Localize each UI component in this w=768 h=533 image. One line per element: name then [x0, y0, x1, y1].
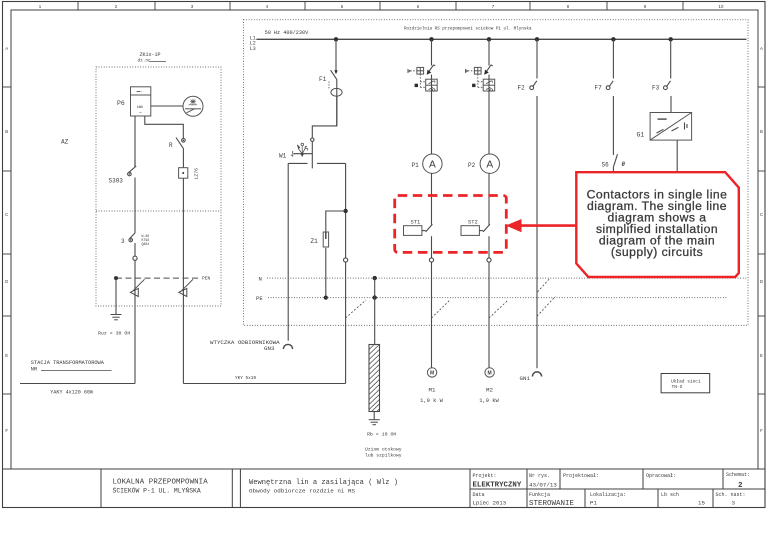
wire ST1 down — [431, 236, 433, 258]
ZK cable box dotted outline — [96, 67, 221, 306]
PEN tap arrow 2 — [179, 279, 193, 296]
svg-text:M: M — [430, 371, 434, 377]
svg-text:dz.nr: dz.nr — [138, 59, 152, 64]
motor M2 — [485, 368, 494, 377]
svg-text:Rozdzielnia RS przepompowni sc: Rozdzielnia RS przepompowni sciekow P1 u… — [404, 27, 532, 32]
svg-text:P1: P1 — [412, 162, 420, 169]
svg-text:Lb sch: Lb sch — [661, 492, 679, 498]
svg-text:F1: F1 — [319, 76, 327, 83]
RS cabinet dotted outline — [244, 20, 749, 326]
svg-text:YAKY 4x120 60m: YAKY 4x120 60m — [50, 389, 93, 395]
motor starter Q2 — [465, 39, 494, 154]
wire P6 to meter dial — [151, 105, 183, 107]
svg-text:C: C — [5, 212, 8, 217]
svg-text:Funkcja: Funkcja — [529, 492, 550, 498]
wire bus to F2 — [536, 39, 538, 78]
svg-text:STEROWANIE: STEROWANIE — [529, 500, 575, 508]
wire Z1 to PE — [325, 248, 327, 298]
svg-text:A: A — [429, 159, 436, 170]
red dashed highlight box around contactors — [395, 196, 507, 253]
wire cable YKY to RS — [183, 383, 345, 385]
svg-text:GN1: GN1 — [520, 375, 531, 382]
energy meter P6 box — [131, 87, 151, 116]
svg-text:Schemat:: Schemat: — [726, 472, 750, 478]
svg-text:YKY 5x10: YKY 5x10 — [235, 376, 256, 381]
svg-text:F7: F7 — [595, 84, 603, 91]
ammeter P2 — [480, 154, 499, 173]
svg-text:L3: L3 — [250, 46, 256, 52]
callout bubble — [576, 172, 739, 277]
busbar L1 L2 L3 — [256, 38, 746, 40]
N distribution dotted line — [267, 277, 748, 279]
switch S303 — [134, 160, 136, 167]
terminal circle M2 feeder — [487, 258, 491, 262]
svg-text:TN-S: TN-S — [672, 384, 683, 390]
node PEN earth junction — [114, 276, 118, 280]
svg-text:B: B — [5, 129, 8, 134]
wire ST2 down — [488, 236, 490, 258]
node earth PE junction — [373, 295, 377, 299]
wire earth electrode — [374, 278, 376, 344]
fuse F2 — [531, 81, 537, 90]
terminal circle M1 feeder — [429, 258, 433, 262]
wire F2 to GN1 — [536, 96, 538, 368]
svg-text:Nr rys.: Nr rys. — [529, 473, 550, 479]
svg-text:Opracował:: Opracował: — [646, 473, 676, 479]
svg-text:2: 2 — [738, 482, 743, 490]
cable mark M2 — [489, 300, 508, 318]
fuse F7 — [607, 81, 613, 90]
svg-text:G1: G1 — [637, 132, 645, 139]
power supply G1 — [650, 113, 692, 141]
svg-text:Projekt:: Projekt: — [473, 473, 497, 479]
svg-text:Lokalizacja:: Lokalizacja: — [590, 492, 626, 498]
svg-text:F3: F3 — [652, 84, 660, 91]
node bus M1 feeder — [429, 37, 433, 41]
svg-text:GN3: GN3 — [264, 345, 275, 352]
TITLEBLOCK — [3, 469, 766, 508]
terminal circle W1 top — [311, 138, 314, 141]
wire G1 output — [676, 140, 678, 172]
svg-text:N: N — [259, 275, 262, 282]
ZK box internal dotted divider — [96, 210, 221, 212]
svg-text:ST2: ST2 — [468, 220, 478, 226]
ammeter P1 — [423, 154, 442, 173]
node bus F3 feeder — [669, 37, 673, 41]
svg-text:A: A — [486, 159, 493, 170]
svg-text:lub szpilkowy: lub szpilkowy — [365, 452, 402, 458]
node bus M2 feeder — [487, 37, 491, 41]
svg-text:ST1: ST1 — [411, 220, 421, 226]
svg-text:AZ: AZ — [61, 139, 69, 146]
thermostat switch S6 — [614, 154, 618, 166]
contactor ST2 — [461, 226, 479, 236]
switch 3 — [130, 233, 135, 238]
svg-text:M1: M1 — [429, 387, 436, 394]
svg-text:Obwody odbiorcze rozdzie ni RS: Obwody odbiorcze rozdzie ni RS — [249, 488, 356, 495]
callout text — [587, 187, 728, 259]
svg-text:Uziom otokowy: Uziom otokowy — [365, 446, 402, 452]
meter dial circle — [183, 96, 203, 116]
svg-text:F: F — [5, 428, 8, 433]
svg-text:B: B — [760, 129, 763, 134]
receptacle GN3 — [283, 344, 292, 349]
svg-text:3: 3 — [732, 500, 736, 507]
svg-text:15: 15 — [698, 500, 705, 507]
svg-text:3: 3 — [121, 238, 125, 245]
earth wire — [115, 278, 117, 314]
svg-text:Projektował:: Projektował: — [563, 473, 599, 479]
svg-text:Lpiec 2013: Lpiec 2013 — [473, 500, 507, 507]
wire to motor M1 — [431, 262, 433, 368]
svg-text:S303: S303 — [109, 178, 124, 185]
wire P6 bottom-left down — [134, 116, 136, 167]
ground ZK — [111, 315, 122, 320]
svg-text:Ruz < 30 OH: Ruz < 30 OH — [98, 331, 130, 337]
svg-text:F: F — [760, 428, 763, 433]
ANNOTATION — [395, 172, 739, 277]
svg-text:⎓−: ⎓− — [137, 89, 144, 94]
svg-text:M2: M2 — [486, 387, 493, 394]
red arrowhead — [506, 219, 522, 232]
ground electrode symbol — [369, 420, 380, 425]
svg-text:10: 10 — [719, 4, 724, 9]
W1 interlock mark — [291, 151, 295, 157]
wire S303 down — [134, 178, 136, 234]
node bus GN1 feeder — [535, 37, 539, 41]
wire 3 down — [134, 243, 136, 256]
wire LZ76 down to YKY run — [182, 178, 184, 383]
svg-text:PE: PE — [256, 295, 263, 302]
svg-text:43/07/13: 43/07/13 — [529, 482, 557, 489]
surge arrester Z1 — [323, 232, 328, 247]
svg-text:D: D — [5, 279, 8, 284]
wire P1 to ST1 — [431, 173, 433, 224]
cable mark M1 — [432, 300, 451, 318]
PE distribution dotted line — [268, 297, 727, 299]
svg-text:1,9 k W: 1,9 k W — [420, 398, 443, 404]
svg-text:NR: NR — [31, 367, 38, 373]
svg-text:STACJA TRANSFORMATOROWA: STACJA TRANSFORMATOROWA — [31, 360, 105, 366]
wire bus to F3 — [670, 39, 672, 78]
wire cable YAKY to transformer — [20, 383, 135, 385]
svg-text:D: D — [760, 279, 763, 284]
node bus F7 feeder — [611, 37, 615, 41]
cable mark GN1 lower — [537, 297, 555, 317]
switch R — [182, 139, 186, 143]
wire bus to F1 with arrow — [335, 39, 337, 70]
svg-text:PEN: PEN — [202, 276, 211, 282]
W1 lower bar left — [288, 162, 307, 164]
cable mark wlz — [346, 300, 366, 318]
wire F7 to S6 — [612, 96, 614, 155]
svg-text:Z1: Z1 — [311, 238, 319, 245]
svg-text:E: E — [5, 353, 8, 358]
svg-text:(supply) circuits: (supply) circuits — [611, 245, 703, 259]
wire W1 right branch down — [345, 163, 347, 383]
motor starter Q1 — [408, 39, 437, 154]
wire P6 bottom-right to R switch — [145, 116, 184, 139]
PEN tap arrow 1 — [130, 279, 144, 296]
svg-text:50 Hz 400/230V: 50 Hz 400/230V — [265, 30, 309, 36]
node bus F1 — [334, 37, 338, 41]
wire electrode to ground — [373, 412, 375, 420]
PEN dashed conductor — [116, 277, 201, 279]
W1 motor drive arrows — [297, 143, 308, 156]
svg-text:Rb < 10 OH: Rb < 10 OH — [367, 432, 396, 438]
svg-text:P1: P1 — [590, 500, 597, 507]
svg-text:W1: W1 — [279, 153, 287, 160]
svg-text:LOKALNA PRZEPOMPOWNIA: LOKALNA PRZEPOMPOWNIA — [113, 479, 209, 487]
svg-text:C: C — [760, 212, 763, 217]
node Z1 tee — [343, 209, 347, 213]
terminal circle — [133, 256, 137, 260]
svg-text:R: R — [169, 142, 173, 149]
wire to YAKY run — [134, 260, 136, 383]
svg-text:P2: P2 — [468, 162, 476, 169]
svg-text:1,9 kW: 1,9 kW — [479, 398, 499, 404]
svg-text:A: A — [5, 46, 8, 51]
wire F1 down and jog to W1 — [312, 80, 337, 138]
W1 lower bar right — [317, 162, 346, 164]
svg-text:ELEKTRYCZNY: ELEKTRYCZNY — [473, 482, 522, 490]
fuse switch disconnector F1 — [331, 70, 337, 80]
svg-text:M: M — [488, 371, 492, 377]
wire P2 to ST2 — [488, 173, 490, 224]
svg-text:F2: F2 — [518, 84, 526, 91]
node Z1 PE junction — [324, 296, 328, 300]
svg-text:Sch. nast:: Sch. nast: — [716, 492, 746, 498]
svg-text:S6: S6 — [602, 161, 610, 168]
svg-text:Wewnętrzna lin a zasilająca (: Wewnętrzna lin a zasilająca ( Wlz ) — [249, 479, 398, 487]
receptacle GN1 — [532, 372, 541, 377]
surge arrester LZ76 box — [179, 168, 188, 179]
motor M1 — [427, 368, 436, 377]
svg-text:Układ sieci: Układ sieci — [671, 378, 701, 384]
svg-text:ZK1x-1P: ZK1x-1P — [139, 52, 160, 58]
fuse F3 — [665, 81, 671, 90]
svg-text:ŚCIEKÓW P-1 UL. MLYŃSKA: ŚCIEKÓW P-1 UL. MLYŃSKA — [113, 486, 201, 495]
node earth N junction — [373, 276, 377, 280]
wire F3 to G1 — [670, 96, 672, 113]
network type box — [661, 374, 710, 393]
CABINET — [210, 20, 748, 459]
svg-text:P6: P6 — [117, 100, 125, 107]
svg-text:A: A — [760, 46, 763, 51]
terminal circle right branch — [344, 258, 348, 262]
svg-text:E: E — [760, 353, 763, 358]
switch disconnector W1 — [311, 141, 313, 168]
wire to motor M2 — [488, 262, 490, 368]
wire R to LZ76 — [182, 149, 184, 168]
svg-text:~: ~ — [139, 110, 142, 115]
svg-text:LZ76: LZ76 — [194, 168, 200, 180]
contactor ST1 — [404, 226, 422, 236]
svg-text:Data: Data — [473, 492, 485, 498]
earth electrode hatched — [369, 345, 380, 412]
cable mark GN1 upper — [538, 279, 550, 292]
wire Z1 stub — [326, 211, 346, 232]
TRAFO — [20, 139, 346, 396]
wire W1 left branch to GN3 — [287, 163, 289, 340]
red arrow line — [520, 224, 577, 227]
ZKBOX — [96, 52, 221, 384]
wire bus to F7 — [612, 39, 614, 78]
svg-text:QA84: QA84 — [142, 242, 150, 246]
